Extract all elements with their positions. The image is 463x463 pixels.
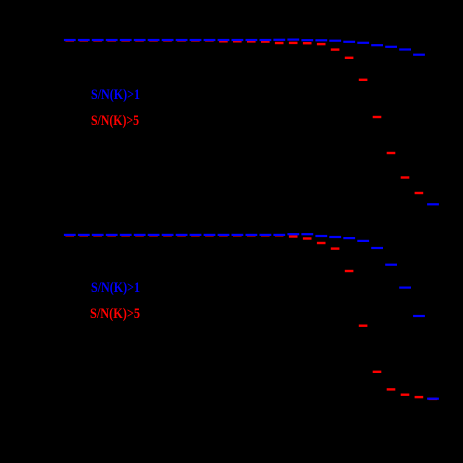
- top panel blue dashed curve S/N(K)>1: [64, 39, 439, 206]
- svg-text:S/N(K)>5: S/N(K)>5: [90, 306, 140, 322]
- bottom panel blue dashed curve S/N(K)>1: [64, 233, 439, 400]
- svg-text:S/N(K)>1: S/N(K)>1: [91, 87, 140, 103]
- bottom panel red dashed curve S/N(K)>5: [65, 234, 437, 400]
- svg-text:S/N(K)>5: S/N(K)>5: [91, 113, 139, 129]
- top panel red dashed curve S/N(K)>5: [65, 39, 423, 194]
- svg-text:S/N(K)>1: S/N(K)>1: [91, 280, 140, 296]
